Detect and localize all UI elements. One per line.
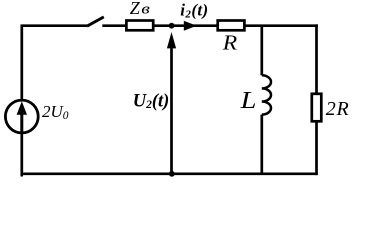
wire right vertical upper (to 2R): [315, 24, 318, 94]
wire from switch to resistor Zv: [102, 24, 127, 27]
svg-text:2U0: 2U0: [42, 102, 69, 122]
node junction dot (bottom, U2 branch): [169, 171, 175, 177]
inductor L coil (3 arcs): [262, 75, 271, 114]
source U1 arrow shaft: [20, 114, 23, 133]
svg-text:i2(t): i2(t): [180, 1, 208, 21]
svg-text:Z: Z: [130, 0, 141, 18]
wire left vertical bottom (source to bottom-left corner): [22, 133, 23, 175]
current arrow i2(t) head: [184, 21, 197, 31]
wire top segment from left corner to switch: [21, 24, 88, 27]
source U1 arrow head: [17, 101, 27, 115]
wire left vertical top (source to top-left corner): [20, 26, 23, 100]
svg-text:в: в: [141, 2, 151, 18]
wire inductor branch lower: [260, 115, 263, 175]
resistor R body: [218, 21, 245, 31]
svg-text:L: L: [240, 88, 257, 114]
wire from resistor Zv to resistor R with node: [154, 24, 218, 27]
resistor 2R body: [312, 94, 322, 122]
svg-text:2R: 2R: [326, 98, 350, 120]
svg-text:R: R: [222, 31, 238, 55]
wire from resistor R to top-right corner: [244, 24, 318, 27]
voltage arrow U2(t) head: [167, 32, 176, 48]
wire right vertical lower (2R to bottom-right corner): [315, 121, 318, 175]
resistor Zv body: [126, 21, 153, 31]
switch S (open blade): [87, 17, 104, 26]
voltage arrow U2(t) shaft: [170, 48, 173, 174]
wire inductor branch upper: [260, 26, 263, 76]
wire bottom rail: [21, 172, 318, 175]
node junction dot (top, i2 branch): [169, 23, 175, 29]
source U1 circle (2U0): [5, 100, 38, 133]
svg-text:U2(t): U2(t): [133, 91, 170, 111]
